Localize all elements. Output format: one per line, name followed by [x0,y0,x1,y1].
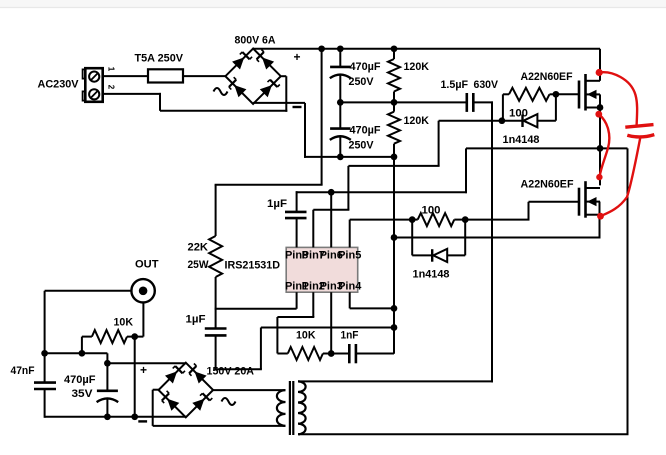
wire minus rail [304,156,394,158]
wire COM return line [394,237,601,239]
wire pin3 CT [330,292,332,353]
diode D2 1n4148 [411,220,413,256]
svg-text:Pin4: Pin4 [338,281,362,293]
wire AC line1 to fuse [103,75,148,77]
svg-text:800V 6A: 800V 6A [235,35,276,47]
svg-text:250V: 250V [349,139,375,151]
red annotation capacitor bottom plate [627,135,654,137]
resistor R2 120K [393,102,395,111]
wire pin7 up [312,210,314,248]
red annotation wire cap to Q2 source [601,137,641,217]
wire C4 to COM [216,368,262,370]
wire pin5 up [349,220,351,248]
svg-text:Pin5: Pin5 [338,250,361,262]
bridge 150V 20A diode top-right [195,371,207,383]
wire R7 left down [81,337,83,354]
top page band [0,0,666,7]
wire VS node horizontal [466,147,628,149]
svg-text:100: 100 [422,205,441,217]
svg-text:+: + [140,363,147,377]
wire Q1 drain to +rail [599,49,601,81]
node gate network right [553,91,560,98]
wire pin1 VCC [296,292,298,309]
svg-text:25W: 25W [188,259,210,271]
wire AC line2 [103,93,161,95]
capacitor C4 1uF VCC [215,309,217,329]
capacitor C1 470uF 250V [339,49,341,67]
svg-text:IRS21531D: IRS21531D [225,260,281,272]
node half-bridge [597,145,604,152]
svg-text:35V: 35V [72,388,94,400]
wire output bottom to transformer [299,433,629,435]
wire LO from pin5 [350,219,413,221]
red annotation blob Q2 drain [596,174,602,180]
node top rail / left vertical [318,45,325,52]
resistor R5 22K 25W [215,185,217,236]
svg-text:A22N60EF: A22N60EF [521,71,573,83]
bridge 150V 20A diode top-left [165,371,177,383]
bridge rectifier 150V 20A diamond [159,363,214,418]
svg-text:120K: 120K [404,115,430,127]
svg-text:250V: 250V [349,76,375,88]
svg-text:630V: 630V [474,79,499,91]
bridge 800V 6A diode top-left [232,57,244,69]
wire pin4 COM [349,292,351,308]
red annotation wire source to drain [599,114,610,177]
svg-text:T5A 250V: T5A 250V [135,53,184,65]
capacitor 1.5uF 630V [465,93,468,112]
wire OUT left [45,290,132,292]
red annotation blob Q2 source [597,213,604,220]
wire down from node to 470uF [106,353,108,391]
svg-text:470µF: 470µF [350,124,381,136]
wire pin2 RT [312,292,314,317]
svg-text:1n4148: 1n4148 [503,134,540,146]
svg-text:2: 2 [107,85,116,90]
svg-text:1µF: 1µF [186,313,206,325]
minus sign bridge2 [138,420,147,422]
wire 10K node down [134,337,136,417]
AC squiggle bridge1 [214,88,228,95]
wire right long vertical from 1.5uF node [491,121,493,383]
transistor Q1 A22N60EF [578,81,581,109]
wire VS to pin6 [296,191,467,193]
bridge 150V 20A diode bottom-left [167,399,179,411]
wire node line [45,352,108,354]
node COM vertical [391,234,398,241]
wire VS vertical jog [465,148,467,193]
wire pin6 up [330,192,332,247]
wire output right down [627,148,629,434]
wire fuse to bridge1 left [183,75,225,77]
terminal block AC input [85,68,102,102]
transformer primary winding [298,381,306,434]
wire mid rail [340,101,467,103]
svg-text:470µF: 470µF [64,374,96,386]
wire bridge2 AC to transformer secondary bottom [153,425,286,427]
resistor R7 10K [82,336,92,338]
svg-text:22K: 22K [188,242,209,254]
svg-text:10K: 10K [114,316,134,328]
wire LO to Q2 gate [465,219,529,221]
svg-text:A22N60EF: A22N60EF [521,179,574,191]
wire bridge2 left corner jog [153,389,159,391]
node minus rail [337,154,344,161]
diode D1 1n4148 [521,115,523,128]
AC squiggle bridge2 [222,398,236,405]
wire 1.5uF down to gate node [491,101,493,120]
wire to Q1 gate [556,93,579,95]
transistor Q2 A22N60EF [578,188,581,216]
svg-text:120K: 120K [404,61,430,73]
node top rail / 120K [391,45,398,52]
terminal screw 1 [89,72,99,82]
op-amp U1 IRS21531D body [286,247,358,292]
OUT connector [131,279,154,302]
svg-text:100: 100 [509,107,528,119]
svg-text:1: 1 [107,67,116,72]
terminal screw 2 [89,89,99,99]
svg-text:AC230V: AC230V [38,79,80,91]
bridge rectifier 800V 6A diamond [225,49,280,104]
red annotation blob Q1 drain [596,69,603,76]
bridge 150V 20A diode bottom-right [192,399,204,411]
capacitor C3 1uF bootstrap [285,211,307,214]
svg-text:OUT: OUT [135,259,159,271]
wire primary top lead [298,380,493,382]
capacitor C6 47nF [34,381,56,384]
wire 47nF branch [44,291,46,384]
capacitor C2 470uF 250V [339,102,341,128]
bridge 800V 6A diode bottom-left [234,85,246,97]
bridge 800V 6A diode bottom-right [260,85,272,97]
wire pin8 up to bootstrap cap [296,218,298,247]
wire top rail down to 22K [321,49,323,185]
svg-text:1µF: 1µF [267,198,287,210]
wire to bridge2 plus [107,362,186,364]
svg-text:47nF: 47nF [11,365,35,377]
resistor R4 100 (low side gate) [409,216,416,223]
svg-text:+: + [293,50,300,64]
wire OUT down [142,303,144,337]
wire + rail top [253,48,600,50]
capacitor C5 1nF [331,353,349,355]
wire Q2 source down to COM line [599,202,601,239]
wire COM vertical [393,157,395,354]
resistor R6 10K (RT) [288,347,323,360]
transformer secondary winding [277,390,286,426]
wire LV minus rail [45,416,186,418]
wire bridge1 minus down [252,103,254,104]
wire bridge1 right corner down to AC line2 [285,76,287,112]
bridge 800V 6A diode top-right [262,57,274,69]
red annotation blob Q1 source [595,111,602,118]
svg-text:1n4148: 1n4148 [413,269,450,281]
node top rail / cap1 [337,45,344,52]
svg-text:150V 20A: 150V 20A [207,366,255,378]
resistor R3 100 (high side gate) [502,94,504,120]
transformer core [289,381,291,435]
minus sign bridge1 [293,106,302,108]
red annotation wire drain to cap [599,72,637,125]
red annotation capacitor top plate [625,125,653,128]
svg-text:10K: 10K [296,329,316,341]
wire HO jog from pin7 [313,209,349,211]
wire HO gate node horizontal [439,120,523,122]
capacitor C7 470uF 35V [97,389,118,392]
svg-text:1nF: 1nF [341,329,359,341]
svg-text:1.5µF: 1.5µF [441,79,469,91]
resistor R1 120K [393,49,395,59]
wire Q1 source down (half-bridge) [599,94,601,185]
node mid rail caps [337,99,344,106]
fuse T5A [148,69,183,82]
wire primary bottom lead [298,433,300,435]
svg-text:470µF: 470µF [350,61,381,73]
node pin6 [328,189,335,196]
wire bridge2 right corner to transformer secondary top [213,389,285,391]
node gate network left [499,117,506,124]
